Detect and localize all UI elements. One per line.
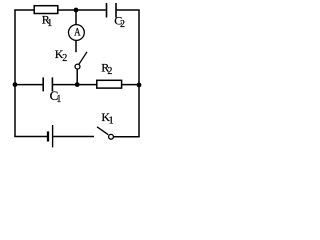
wire: ammeter branch lower [75,40,77,52]
wire: bottom left segment [14,136,47,138]
svg-text:2: 2 [62,53,67,64]
wire: top middle segment [58,9,106,11]
resistor R1 [34,6,58,14]
wire: middle centre segment [53,84,97,86]
wire: ammeter branch upper [75,10,77,25]
switch K2 blade [79,52,87,65]
wire: middle left segment [15,84,43,86]
wire: left border [14,10,16,137]
capacitor C2 left plate [106,3,108,18]
node: junction K2 branch / middle wire [75,82,80,87]
node: junction on top wire [74,8,79,13]
wire: bottom middle segment [53,136,94,138]
wire: middle right segment [122,84,139,86]
capacitor C2 right plate [115,3,117,18]
switch K1 blade [97,127,108,135]
wire: right border [138,10,140,137]
svg-text:A: A [74,27,81,39]
capacitor C1 left plate [42,77,44,91]
svg-text:1: 1 [47,18,52,29]
wire: top right segment [117,9,140,11]
switch K2 contact circle [75,64,80,69]
wire: top left segment [14,9,34,11]
svg-text:1: 1 [56,94,61,105]
svg-text:2: 2 [120,19,125,30]
capacitor C1 right plate [51,77,53,91]
wire: bottom right segment [113,136,139,138]
svg-text:2: 2 [107,66,112,77]
resistor R2 [97,80,122,88]
wire: switch K2 to middle wire [76,69,78,85]
node: junction left border / middle wire [13,82,18,87]
node: junction right border / middle wire [137,83,142,88]
battery long plate [52,125,54,147]
svg-text:1: 1 [109,116,114,127]
battery short plate [47,131,49,141]
op: ammeter A circle [69,25,85,41]
switch K1 contact circle [109,134,114,139]
